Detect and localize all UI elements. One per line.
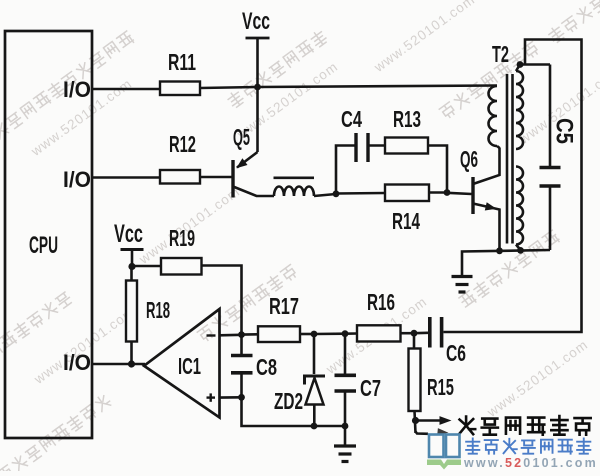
svg-text:R13: R13: [393, 106, 421, 132]
capacitor C5: [540, 65, 578, 251]
node Vcc rail junction: [254, 84, 261, 91]
node inverting input: [238, 331, 245, 338]
capacitor C8: [231, 335, 277, 398]
wire: [300, 333, 314, 336]
transformer T2 label: [492, 41, 509, 67]
wire: [92, 176, 160, 179]
resistor R17: [258, 293, 300, 342]
wire: [414, 331, 428, 334]
svg-text:Q6: Q6: [460, 146, 478, 172]
wire (non-inverting input): [220, 396, 242, 399]
logo text 家电维修资料网: [466, 438, 590, 453]
wire: [132, 265, 161, 268]
wire: [242, 397, 346, 426]
resistor R14: [385, 185, 429, 235]
wire: [368, 144, 385, 147]
svg-text:R14: R14: [392, 208, 420, 234]
power Vcc: [242, 8, 270, 87]
svg-text:R17: R17: [269, 293, 299, 319]
svg-text:R15: R15: [427, 374, 454, 400]
node R13/R14/Q5 base junction: [444, 189, 451, 196]
node emitter/rail: [496, 247, 503, 254]
IC CPU: [5, 31, 92, 438]
logo book icon: [427, 435, 461, 470]
capacitor C7: [335, 334, 382, 426]
wire: [401, 332, 415, 335]
transformer T2 core: [507, 74, 513, 244]
node non-inverting input: [238, 394, 245, 401]
transistor Q6: [460, 146, 500, 251]
svg-text:IC1: IC1: [178, 353, 201, 379]
wire: [92, 88, 160, 91]
node coil / R14 / C4 junction: [333, 190, 340, 197]
watermark: [438, 40, 540, 119]
svg-text:C5: C5: [551, 118, 578, 144]
wire: [314, 194, 336, 196]
op-amp IC1: [144, 309, 220, 418]
svg-text:www.520101.com: www.520101.com: [484, 337, 591, 421]
pin I/O (to R11): [63, 77, 91, 102]
transistor Q5: [233, 87, 274, 198]
wire: [200, 176, 232, 179]
resistor R12: [160, 131, 200, 184]
transformer T2 primary winding: [489, 86, 500, 148]
ground (signal rail): [334, 426, 356, 462]
node C7 top: [342, 330, 349, 337]
wire: [429, 191, 447, 194]
label 接火焰探测针 (flame probe): [459, 416, 591, 435]
watermark: [371, 0, 478, 75]
wire: [92, 363, 145, 366]
watermark: [0, 290, 73, 399]
watermark: [516, 64, 600, 148]
watermark: [323, 294, 430, 378]
resistor R16: [357, 289, 401, 342]
watermark: [196, 263, 298, 342]
svg-text:I/O: I/O: [63, 167, 91, 192]
wire (inverting input): [220, 333, 242, 336]
svg-text:R16: R16: [367, 289, 395, 315]
watermark: [136, 184, 243, 268]
watermark: [28, 76, 135, 160]
transformer T2 secondary winding: [516, 65, 523, 251]
watermark: [31, 304, 138, 388]
svg-text:R18: R18: [146, 297, 170, 323]
svg-text:Vcc: Vcc: [114, 220, 143, 248]
svg-text:www.520101.com: www.520101.com: [463, 456, 598, 470]
node IC1 output / R18: [128, 360, 135, 367]
watermark: [0, 30, 134, 170]
watermark: [484, 337, 591, 421]
capacitor C4: [341, 106, 368, 162]
wire: [258, 86, 498, 88]
wire HV loop (secondary to C6): [444, 40, 582, 333]
watermark: [547, 0, 600, 44]
capacitor C6: [430, 317, 466, 366]
wire: [202, 266, 242, 335]
svg-text:R11: R11: [168, 49, 196, 75]
svg-text:Vcc: Vcc: [242, 8, 270, 35]
wire flame probe arrow: [416, 416, 452, 435]
wire: [336, 192, 385, 195]
diode ZD2 (zener): [274, 334, 325, 426]
wire: [130, 342, 133, 365]
svg-text:I/O: I/O: [63, 77, 91, 102]
node ZD2 bottom rail: [311, 423, 318, 430]
node ZD2 top: [311, 331, 318, 338]
wire: [447, 193, 472, 194]
svg-text:Q5: Q5: [233, 124, 250, 150]
ground (transformer): [452, 277, 473, 293]
svg-text:C8: C8: [256, 354, 277, 380]
resistor R13: [385, 106, 428, 154]
svg-text:ZD2: ZD2: [274, 388, 303, 414]
logo url www.520101.com: [463, 456, 598, 470]
watermark: [234, 59, 341, 143]
node secondary top: [517, 61, 524, 68]
node C7 bottom rail: [342, 423, 349, 430]
svg-text:I/O: I/O: [63, 350, 91, 375]
node secondary bottom: [517, 247, 524, 254]
node flame probe tap: [412, 417, 419, 424]
pin I/O (to IC1 output): [63, 350, 91, 375]
wire: [345, 332, 357, 335]
resistor R18: [126, 281, 170, 342]
pin I/O (to R12): [63, 167, 91, 192]
resistor R11: [160, 49, 200, 95]
wire: [336, 146, 355, 194]
inductor L (iron core choke): [274, 178, 315, 196]
svg-text:CPU: CPU: [29, 232, 58, 259]
resistor R19: [161, 225, 202, 275]
resistor R15: [409, 333, 455, 433]
svg-text:C6: C6: [446, 340, 466, 366]
watermark: [226, 29, 328, 108]
node Vcc/R18/R19: [128, 263, 135, 270]
wire: [130, 267, 133, 281]
wire: [428, 146, 447, 193]
watermark: [0, 393, 112, 476]
watermark: [458, 229, 560, 308]
svg-text:T2: T2: [492, 41, 509, 67]
node R16/C6/R15: [411, 330, 418, 337]
svg-text:C7: C7: [360, 375, 381, 401]
wire: [520, 63, 550, 66]
wire: [242, 333, 259, 336]
wire: [314, 332, 345, 335]
svg-text:C4: C4: [341, 106, 362, 132]
svg-text:R19: R19: [169, 225, 195, 251]
svg-text:www.520101.com: www.520101.com: [371, 0, 478, 75]
wire: [200, 87, 258, 88]
svg-text:R12: R12: [169, 131, 196, 157]
power Vcc (bias): [114, 220, 144, 267]
wire: [462, 250, 550, 275]
